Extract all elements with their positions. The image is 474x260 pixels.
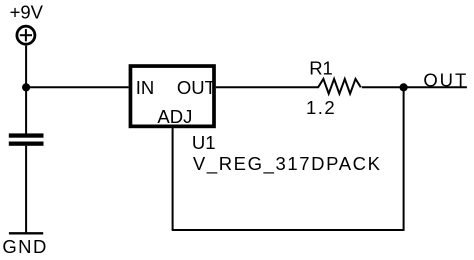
power supply symbol +9V (17, 26, 35, 44)
svg-text:IN: IN (136, 77, 155, 98)
wire: capacitor to ground (vertical) (25, 146, 27, 234)
node: output junction (400, 83, 408, 91)
svg-text:ADJ: ADJ (157, 106, 192, 127)
svg-text:OUT: OUT (177, 77, 216, 98)
regulator U1 body (130, 66, 214, 126)
svg-text:R1: R1 (309, 57, 333, 78)
wire: ADJ pin down (vertical) (172, 127, 174, 230)
wire: feedback bottom run (horizontal) (172, 229, 405, 231)
ground (9, 232, 43, 234)
svg-text:GND: GND (2, 236, 47, 257)
svg-text:1.2: 1.2 (306, 97, 336, 118)
svg-text:U1: U1 (192, 132, 216, 153)
node: junction at +9V rail (22, 83, 30, 91)
svg-text:+9V: +9V (10, 2, 44, 23)
svg-text:V_REG_317DPACK: V_REG_317DPACK (193, 153, 382, 175)
wire: power symbol to capacitor (vertical) (25, 46, 27, 134)
resistor R1 (318, 79, 361, 94)
svg-text:OUT: OUT (423, 69, 468, 90)
wire: resistor to OUT port (horizontal) (362, 86, 467, 88)
wire: junction to IN pin (horizontal) (26, 86, 129, 88)
capacitor (top plate) (9, 133, 44, 137)
capacitor (bottom plate) (9, 142, 44, 146)
wire: OUT pin to resistor R1 (horizontal) (216, 86, 319, 88)
wire: output junction down (vertical) (403, 87, 405, 230)
